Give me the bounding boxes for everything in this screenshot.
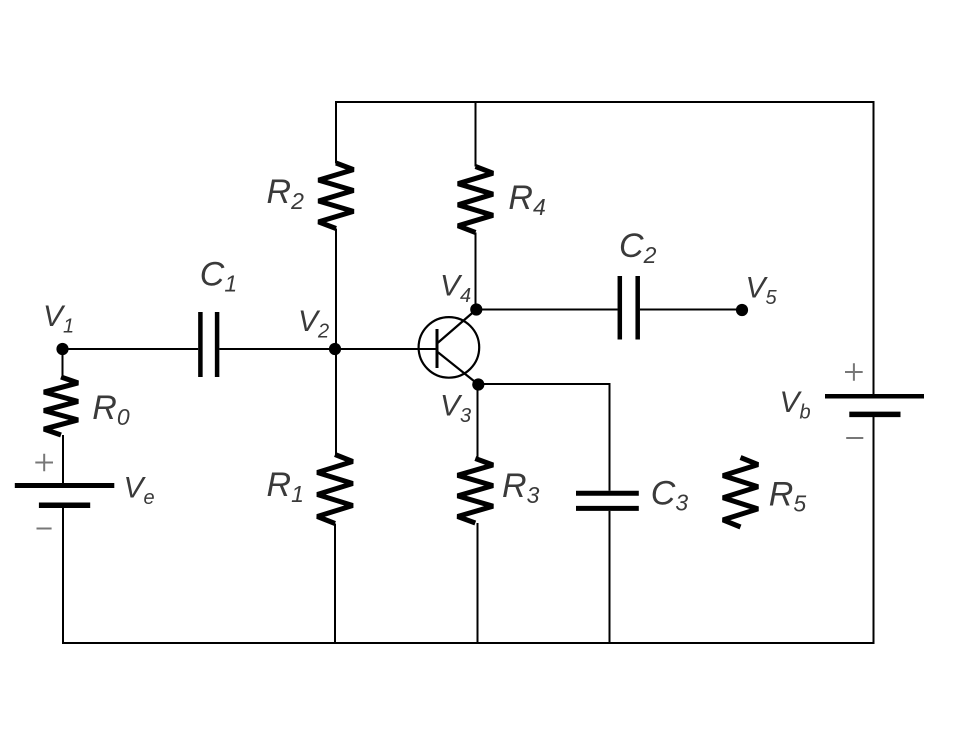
wire R3 to bottom rail: [477, 523, 479, 643]
capacitor C2: [620, 276, 638, 340]
wire R0 to Ve battery: [62, 435, 64, 484]
svg-text:Vb: Vb: [780, 386, 811, 424]
node V4: [470, 303, 482, 315]
svg-text:C2: C2: [619, 227, 657, 268]
resistor R5: [723, 458, 758, 528]
resistor R3: [458, 459, 493, 524]
battery Ve: [15, 483, 115, 488]
plus sign Vb: [845, 363, 863, 381]
wire C1 to V2 to transistor base: [219, 348, 437, 350]
wire R2 to V2 to R1: [335, 229, 337, 455]
resistor R1: [317, 455, 352, 524]
node V1: [56, 343, 68, 355]
wire V4 to C2: [476, 309, 617, 311]
transistor Q1: [419, 310, 480, 385]
capacitor C3: [576, 493, 639, 508]
svg-text:V4: V4: [440, 270, 471, 308]
wire R1 to bottom rail: [334, 524, 336, 644]
node V2: [329, 343, 341, 355]
resistor R2: [319, 163, 354, 229]
svg-text:R2: R2: [267, 173, 305, 214]
svg-text:C1: C1: [200, 256, 237, 297]
wire C3 to bottom rail: [609, 511, 611, 643]
resistor R4: [458, 167, 493, 233]
svg-text:V1: V1: [43, 300, 74, 338]
wire C2 to V5: [640, 309, 742, 311]
wire V3 to C3 corner: [478, 384, 609, 491]
plus sign Ve: [35, 454, 53, 472]
wire R4 to V4: [475, 233, 477, 310]
svg-text:R0: R0: [92, 389, 130, 430]
node V3: [472, 378, 484, 390]
wire V1 to C1: [63, 348, 199, 350]
svg-text:R4: R4: [508, 179, 545, 220]
minus sign Vb: [846, 437, 863, 439]
svg-text:Ve: Ve: [124, 472, 155, 510]
svg-text:V2: V2: [298, 305, 329, 343]
minus sign Ve: [37, 528, 52, 530]
svg-text:C3: C3: [651, 475, 689, 516]
svg-text:R3: R3: [502, 467, 540, 508]
node V5: [736, 304, 748, 316]
wire R2 top lead, top rail and right rail upper: [336, 102, 874, 394]
svg-text:V5: V5: [746, 272, 778, 310]
wire V3 to R3: [477, 385, 479, 459]
wire top rail to R4: [475, 102, 477, 167]
wire right rail lower, bottom rail, Ve to bottom: [63, 417, 874, 644]
svg-text:V3: V3: [440, 390, 471, 428]
resistor R0: [44, 377, 78, 435]
wire V1 to R0: [62, 349, 64, 377]
capacitor C1: [200, 312, 217, 377]
svg-text:R5: R5: [769, 476, 807, 517]
svg-text:R1: R1: [267, 466, 304, 507]
battery Vb: [825, 394, 924, 399]
